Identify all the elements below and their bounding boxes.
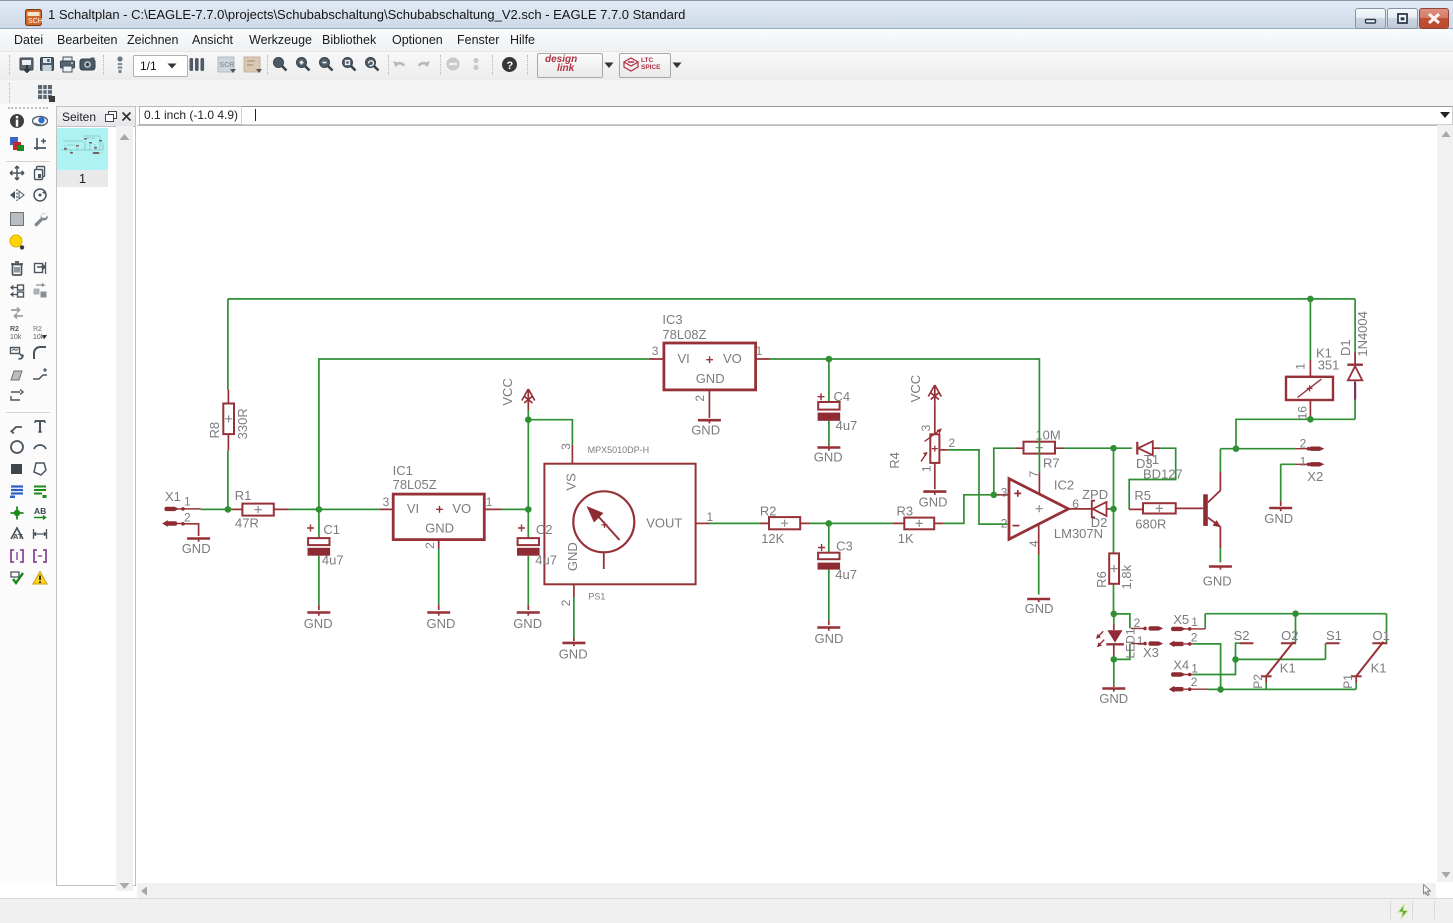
wire op-amp pin4 to GND — [1038, 555, 1040, 595]
svg-text:1N4004: 1N4004 — [1355, 311, 1370, 357]
svg-text:GND: GND — [425, 521, 454, 536]
wire contact mid rail — [1236, 643, 1326, 659]
page thumbnail — [57, 128, 108, 170]
junction node 14 — [1233, 445, 1240, 452]
svg-text:S2: S2 — [1234, 628, 1250, 643]
svg-text:2: 2 — [1191, 631, 1198, 645]
wire VCC node to PS1 VS pin 3 — [528, 420, 572, 464]
svg-text:R2: R2 — [760, 504, 777, 519]
X1 pin1 wire stub — [183, 508, 201, 510]
wire VCC riser — [527, 410, 529, 509]
ground R4 — [919, 492, 948, 510]
svg-text:GND: GND — [1203, 574, 1232, 589]
svg-text:O2: O2 — [1281, 628, 1298, 643]
wire R2 to R3 node — [810, 522, 892, 524]
help icon — [501, 56, 518, 73]
junction node 2 — [316, 506, 323, 513]
status bar — [0, 898, 1453, 923]
junction node 11 — [1111, 656, 1118, 663]
junction node 1 — [225, 506, 232, 513]
resistor R2 — [760, 517, 810, 529]
junction node 12 — [1307, 296, 1314, 303]
IC3 pin2 stub — [708, 390, 710, 418]
D1 labels — [1338, 311, 1370, 357]
junction node 3 — [525, 506, 532, 513]
zoom icon 3 — [318, 56, 334, 73]
svg-text:1: 1 — [1294, 363, 1308, 370]
wire bottom rail — [1208, 688, 1356, 690]
voltage regulator IC3 — [649, 343, 770, 390]
svg-text:K1: K1 — [1280, 661, 1296, 676]
svg-text:1K: 1K — [898, 531, 914, 546]
svg-text:GND: GND — [1025, 601, 1054, 616]
svg-text:GND: GND — [565, 542, 580, 571]
R2 labels — [760, 504, 785, 546]
wire R3 to op-amp +input — [943, 495, 993, 524]
svg-text:1: 1 — [1300, 455, 1307, 469]
svg-text:D2: D2 — [1091, 515, 1108, 530]
voltage regulator IC1 — [380, 494, 501, 539]
svg-text:GND: GND — [1264, 511, 1293, 526]
canvas — [137, 125, 1437, 884]
ground T1 — [1203, 567, 1232, 589]
supply VCC right — [908, 375, 941, 404]
ground C4 — [814, 445, 843, 465]
svg-text:3: 3 — [919, 424, 933, 431]
IC2 labels — [1001, 471, 1103, 547]
IC3 labels — [652, 312, 763, 402]
ground C1 — [304, 605, 333, 631]
svg-text:4u7: 4u7 — [535, 552, 557, 567]
wire R7 right to feedback node — [1064, 447, 1132, 449]
svg-text:6: 6 — [1072, 497, 1079, 511]
junction node 4 — [525, 416, 532, 423]
svg-text:1: 1 — [707, 510, 714, 524]
svg-text:351: 351 — [1318, 358, 1340, 373]
resistor R6 — [1109, 553, 1119, 583]
svg-text:4: 4 — [1027, 540, 1041, 547]
command input — [241, 106, 1453, 125]
wire C1 riser to IC3 input — [319, 359, 649, 509]
svg-text:1,8k: 1,8k — [1119, 564, 1134, 589]
open icon — [19, 56, 36, 73]
go (disabled) — [470, 56, 482, 72]
svg-text:VI: VI — [678, 351, 690, 366]
wire op-amp +input node to R7 left — [994, 448, 1015, 495]
svg-text:1: 1 — [1191, 615, 1198, 629]
svg-text:C1: C1 — [323, 522, 340, 537]
design link button — [537, 53, 603, 78]
resistor R7 — [1015, 442, 1064, 454]
toolbars — [0, 51, 1453, 81]
diode D1 — [1347, 352, 1363, 400]
svg-text:78L05Z: 78L05Z — [393, 477, 437, 492]
ground C2 — [513, 605, 542, 631]
svg-text:2: 2 — [423, 542, 437, 549]
pages panel scrollbar — [116, 126, 133, 891]
svg-text:GND: GND — [1099, 691, 1128, 706]
svg-text:3: 3 — [652, 344, 659, 358]
svg-text:PS1: PS1 — [588, 591, 605, 601]
svg-text:P1: P1 — [1341, 674, 1355, 689]
svg-text:3: 3 — [559, 443, 573, 450]
capacitor C3 — [818, 544, 841, 570]
ground PS1 — [559, 638, 588, 662]
brd icon (disabled) — [243, 56, 263, 74]
svg-text:R3: R3 — [897, 504, 914, 519]
trimmer R4 — [921, 404, 947, 490]
X5 labels — [1173, 612, 1198, 645]
PS1 pin2 stub — [573, 584, 575, 638]
svg-text:VCC: VCC — [908, 375, 923, 402]
wire C4 branch down — [828, 359, 830, 445]
contact 2 labels — [1234, 628, 1299, 689]
junction node 7 — [991, 492, 998, 499]
window title bar — [0, 0, 1453, 29]
wire PS1 VOUT to R2 — [710, 522, 760, 524]
connector X4 — [1169, 672, 1208, 692]
svg-text:S1: S1 — [1326, 628, 1342, 643]
resistor R8 — [223, 390, 234, 451]
ground X1 — [182, 539, 211, 556]
svg-text:R6: R6 — [1094, 571, 1109, 588]
wire C1 branch down — [318, 509, 320, 605]
junction node 5 — [826, 356, 833, 363]
ground LED — [1099, 685, 1128, 706]
svg-text:R5: R5 — [1134, 488, 1151, 503]
left tool palette — [0, 104, 56, 884]
svg-text:P2: P2 — [1251, 674, 1265, 689]
svg-text:7: 7 — [1027, 471, 1041, 478]
svg-text:GND: GND — [696, 371, 725, 386]
svg-text:VS: VS — [564, 473, 579, 491]
wire IC3 output rail to op-amp pin7 — [770, 359, 1040, 473]
svg-text:330R: 330R — [235, 408, 250, 439]
svg-text:BD127: BD127 — [1143, 466, 1183, 481]
wire X4 pin1 riser — [1193, 659, 1236, 674]
wire LED column — [1113, 614, 1115, 686]
svg-text:2: 2 — [949, 436, 956, 450]
R7 labels — [1035, 427, 1060, 470]
redo (disabled) — [415, 58, 431, 71]
screw icon — [114, 55, 126, 75]
D3 labels — [1136, 452, 1183, 482]
D2 labels — [1082, 487, 1108, 530]
svg-text:16: 16 — [1295, 406, 1309, 420]
junction node 13 — [1307, 416, 1314, 423]
svg-text:GND: GND — [427, 616, 456, 631]
X4 labels — [1173, 658, 1198, 689]
relay coil K1 — [1286, 360, 1333, 419]
coordinate box — [139, 106, 243, 125]
svg-text:78L08Z: 78L08Z — [662, 327, 706, 342]
R8 labels — [207, 408, 250, 439]
K1 coil labels — [1294, 345, 1340, 419]
IC1 labels — [383, 463, 493, 549]
svg-text:D1: D1 — [1338, 339, 1353, 356]
svg-text:1: 1 — [919, 465, 933, 472]
pages panel — [56, 106, 136, 886]
svg-text:3: 3 — [1001, 486, 1008, 500]
junction node 10 — [1111, 611, 1118, 618]
svg-text:3: 3 — [383, 495, 390, 509]
R1 labels — [235, 488, 259, 530]
junction node 6 — [826, 520, 833, 527]
ground IC1 — [427, 605, 456, 631]
contact 1 labels — [1326, 628, 1390, 689]
wire emitter to GND — [1219, 548, 1221, 563]
R3 labels — [897, 504, 915, 546]
svg-text:C2: C2 — [536, 522, 553, 537]
svg-text:X3: X3 — [1143, 645, 1159, 660]
svg-text:VO: VO — [723, 351, 742, 366]
relay contact S2-O2-P2 — [1240, 642, 1296, 677]
svg-text:2: 2 — [693, 395, 707, 402]
svg-text:2: 2 — [1001, 517, 1008, 531]
junction node 17 — [1217, 686, 1224, 693]
svg-text:C3: C3 — [836, 539, 853, 554]
svg-text:2: 2 — [184, 511, 191, 525]
wire X3 pin2 wrap — [1114, 614, 1130, 629]
save icon — [39, 56, 56, 73]
zoom icon 2 — [295, 56, 311, 73]
green lightning status icon — [1395, 903, 1411, 920]
image export icon — [79, 56, 97, 73]
wire collector to relay node — [1220, 419, 1310, 472]
svg-text:4u7: 4u7 — [322, 552, 344, 567]
connector X2 — [1296, 447, 1324, 467]
svg-text:GND: GND — [304, 616, 333, 631]
svg-text:VI: VI — [407, 501, 419, 516]
svg-text:2: 2 — [1300, 437, 1307, 451]
right scrollbar — [1437, 125, 1453, 882]
C1 labels — [322, 522, 344, 567]
LED labels — [1124, 616, 1159, 660]
app icon — [25, 9, 42, 26]
ground IC3 — [691, 420, 721, 437]
connector X1 — [162, 507, 185, 527]
wire feedback column — [1113, 448, 1115, 614]
LTC SPICE button — [619, 53, 671, 78]
wire C2 branch down — [527, 509, 529, 605]
C3 labels — [835, 539, 857, 583]
svg-text:1: 1 — [1191, 661, 1198, 675]
svg-text:1: 1 — [184, 494, 191, 508]
wire contact top rail — [1205, 614, 1386, 644]
svg-text:ZPD: ZPD — [1082, 487, 1108, 502]
svg-text:R8: R8 — [207, 422, 222, 439]
svg-text:X4: X4 — [1173, 658, 1189, 673]
resistor R3 — [893, 518, 944, 530]
svg-text:VCC: VCC — [500, 378, 515, 405]
svg-text:R7: R7 — [1043, 456, 1060, 471]
junction node 8 — [1110, 445, 1117, 452]
mouse cursor — [1422, 884, 1433, 897]
svg-text:12K: 12K — [761, 531, 784, 546]
wire top supply rail (relay net) — [228, 298, 1355, 300]
C4 labels — [834, 389, 858, 433]
svg-text:4u7: 4u7 — [836, 418, 858, 433]
wire D2 out to feedback node — [1110, 508, 1114, 510]
menu bar — [0, 29, 1453, 51]
svg-text:GND: GND — [814, 450, 843, 465]
wire relay bottom to D1 bottom — [1310, 299, 1355, 419]
ground X2 — [1264, 501, 1293, 526]
svg-text:MPX5010DP-H: MPX5010DP-H — [588, 445, 650, 455]
svg-text:GND: GND — [691, 422, 720, 437]
svg-text:X1: X1 — [165, 489, 181, 504]
connector X3 — [1131, 626, 1163, 646]
PS1 pin1 stub — [696, 522, 710, 524]
LED D1 — [1096, 624, 1124, 657]
svg-text:R4: R4 — [887, 452, 902, 469]
R5 labels — [1134, 488, 1166, 531]
pressure sensor PS1 — [544, 464, 695, 585]
print icon — [59, 56, 77, 73]
wire X1 to R1 — [201, 508, 233, 510]
zener diode D2 — [1092, 501, 1110, 518]
op-amp IC2 — [994, 473, 1092, 555]
wire X3 pin1 wrap — [1114, 644, 1130, 660]
X1 labels — [165, 489, 191, 525]
zoom icon 4 — [341, 56, 357, 73]
wire D3 out loop to R5 — [1129, 448, 1176, 509]
wire R1 to IC1 input — [289, 508, 380, 510]
wire C3 branch down — [828, 523, 830, 620]
svg-text:GND: GND — [513, 616, 542, 631]
diode D3 — [1137, 441, 1160, 455]
grid icon row2 — [9, 83, 11, 103]
transistor T1 — [1203, 472, 1221, 548]
wire X5 pin2 to bottom rail — [1193, 644, 1221, 690]
svg-text:O1: O1 — [1373, 628, 1390, 643]
layers icon — [188, 56, 206, 73]
relay contact S1-O1-P1 — [1326, 642, 1388, 677]
svg-text:2: 2 — [559, 599, 573, 606]
svg-text:X2: X2 — [1307, 469, 1323, 484]
undo (disabled) — [392, 58, 408, 71]
svg-text:1: 1 — [756, 344, 763, 358]
X1 pin2 wire to ground — [183, 524, 199, 536]
svg-text:GND: GND — [919, 494, 948, 509]
wire R8 branch verticals — [227, 299, 229, 510]
IC1 pin2 stub — [438, 540, 440, 605]
X2 labels — [1300, 437, 1324, 485]
wire IC1 output to VCC node — [501, 508, 528, 510]
bottom scrollbar — [137, 883, 1436, 898]
connector X5 — [1169, 627, 1205, 648]
wire X2 pin1 to GND — [1281, 464, 1296, 501]
svg-text:X5: X5 — [1173, 612, 1189, 627]
stop (disabled) — [445, 56, 461, 72]
SCR icon (disabled) — [217, 56, 237, 74]
svg-text:IC1: IC1 — [393, 463, 413, 478]
svg-text:R1: R1 — [235, 488, 252, 503]
svg-text:VO: VO — [452, 501, 471, 516]
zoom icon 5 — [364, 56, 380, 73]
svg-text:4u7: 4u7 — [835, 567, 857, 582]
wire R4 wiper to op-amp -input — [947, 450, 1007, 524]
svg-text:VOUT: VOUT — [646, 515, 682, 530]
svg-text:2: 2 — [1191, 675, 1198, 689]
supply VCC left — [500, 378, 535, 410]
junction node 9 — [1110, 506, 1117, 513]
svg-text:GND: GND — [182, 541, 211, 556]
ground IC2 — [1025, 599, 1054, 616]
svg-text:GND: GND — [559, 647, 588, 662]
svg-text:47R: 47R — [235, 515, 259, 530]
capacitor C1 — [307, 525, 330, 556]
C2 labels — [535, 522, 557, 567]
wire D1 verticals — [1354, 299, 1356, 419]
PS1 labels — [559, 443, 713, 607]
capacitor C2 — [517, 525, 540, 556]
capacitor C4 — [818, 393, 841, 421]
svg-text:IC3: IC3 — [662, 312, 682, 327]
R6 labels — [1094, 564, 1134, 589]
sheet combo 1/1 — [133, 55, 188, 77]
zoom icon 1 — [272, 56, 288, 73]
svg-text:1: 1 — [486, 495, 493, 509]
R4 labels — [887, 424, 956, 472]
resistor R5 — [1129, 503, 1203, 513]
svg-text:680R: 680R — [1135, 516, 1166, 531]
resistor R1 — [232, 504, 288, 516]
svg-text:C4: C4 — [834, 389, 851, 404]
svg-text:GND: GND — [815, 631, 844, 646]
svg-text:K1: K1 — [1371, 661, 1387, 676]
ground C3 — [815, 620, 844, 646]
junction node 16 — [1232, 656, 1239, 663]
svg-text:IC2: IC2 — [1054, 477, 1074, 492]
wire contact pivots to rail — [1266, 676, 1356, 689]
junction node 15 — [1292, 610, 1299, 617]
